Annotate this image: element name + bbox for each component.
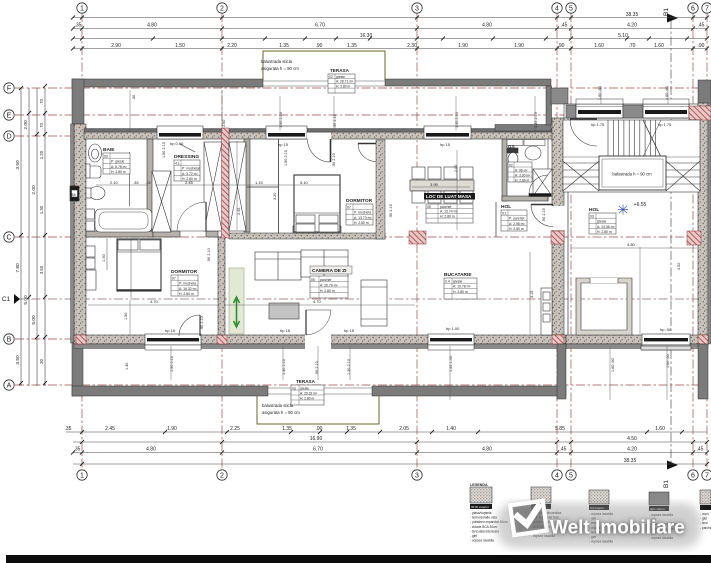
svg-text:3: 3 xyxy=(415,473,419,480)
section line C1 xyxy=(15,298,705,300)
svg-text:H: 2.80 m: H: 2.80 m xyxy=(179,292,194,296)
svg-text:6.70: 6.70 xyxy=(313,447,323,453)
svg-text:Welt Imobiliare: Welt Imobiliare xyxy=(550,518,685,539)
corridor divider line xyxy=(247,186,279,188)
svg-text:4.80: 4.80 xyxy=(482,23,492,29)
svg-text:C1: C1 xyxy=(2,296,11,303)
svg-text:H: 2.80 m: H: 2.80 m xyxy=(354,221,369,225)
bath bidet xyxy=(86,187,105,200)
svg-text:1.90: 1.90 xyxy=(514,43,524,49)
grid axis A xyxy=(15,384,705,386)
tick marks top xyxy=(19,16,709,467)
svg-text:1.60 .60: 1.60 .60 xyxy=(611,358,615,372)
door bedroom1 arc xyxy=(177,202,206,231)
svg-text:.45: .45 xyxy=(697,447,704,453)
svg-text:.45: .45 xyxy=(698,23,705,29)
red column mid-3 xyxy=(687,231,701,245)
room table DORMITOR 2 xyxy=(346,198,373,225)
svg-text:1.60: 1.60 xyxy=(654,43,664,49)
left exterior wall hatched xyxy=(74,124,86,343)
GS door leaf xyxy=(529,175,551,197)
svg-text:1.60 .60: 1.60 .60 xyxy=(666,354,670,368)
bubble 3 top xyxy=(412,3,422,13)
grid axis 6 xyxy=(692,13,694,470)
svg-text:30 W exterior: 30 W exterior xyxy=(471,505,489,509)
room table HOL unit2 xyxy=(589,207,616,234)
shower cabin xyxy=(533,169,552,196)
top dimension line 4 xyxy=(73,48,707,50)
svg-text:A: 2.98 m²: A: 2.98 m² xyxy=(509,222,526,226)
bubble 2 bottom xyxy=(217,470,227,480)
dining chairs row top xyxy=(412,167,473,179)
svg-text:hp 15: hp 15 xyxy=(280,328,291,333)
bedroom2 left wall line xyxy=(278,139,280,233)
svg-text:P: parchet: P: parchet xyxy=(509,217,525,221)
svg-text:.90: .90 xyxy=(558,43,565,49)
top dimension line 3 xyxy=(73,38,707,40)
svg-text:02: 02 xyxy=(329,75,333,79)
svg-text:2.05: 2.05 xyxy=(399,426,409,432)
svg-text:4.50: 4.50 xyxy=(627,436,637,442)
svg-text:gresie: gresie xyxy=(336,75,345,79)
partition bedroom1 top right piece xyxy=(206,231,218,237)
svg-text:3.50: 3.50 xyxy=(39,265,44,274)
svg-text:6: 6 xyxy=(691,473,695,480)
bubble 2 top xyxy=(217,3,227,13)
svg-text:E: E xyxy=(7,113,12,120)
svg-text:1: 1 xyxy=(80,6,84,13)
svg-text:05: 05 xyxy=(311,278,315,282)
red column S right-unit left xyxy=(552,335,564,344)
north wall pier right unit right xyxy=(698,80,711,105)
svg-text:1.40: 1.40 xyxy=(446,426,456,432)
svg-text:1.90: 1.90 xyxy=(167,426,177,432)
svg-text:2.45: 2.45 xyxy=(105,426,115,432)
svg-text:.70: .70 xyxy=(629,43,636,49)
svg-text:H: 2.80 m: H: 2.80 m xyxy=(515,178,530,182)
terrace parapet bottom left xyxy=(72,386,268,396)
bath screen line xyxy=(129,152,131,206)
svg-text:A: 10.78 m²: A: 10.78 m² xyxy=(453,285,471,289)
hol/bucatarie divider line xyxy=(495,202,497,237)
window N1 opening diagonal xyxy=(180,144,195,152)
svg-text:5.85: 5.85 xyxy=(555,426,565,432)
window N2 xyxy=(266,126,307,139)
svg-text:H: 2.80 m: H: 2.80 m xyxy=(509,227,524,231)
bottom dimension line 3 xyxy=(73,452,707,454)
svg-text:1.30 2.10: 1.30 2.10 xyxy=(282,359,286,375)
watermark logo shadow xyxy=(510,501,547,535)
svg-text:6: 6 xyxy=(691,6,695,13)
window S1 xyxy=(145,334,201,350)
svg-text:1.30 2.10: 1.30 2.10 xyxy=(347,359,351,375)
svg-text:parchet: parchet xyxy=(320,278,331,282)
svg-text:16.30: 16.30 xyxy=(360,33,373,39)
partition dormitor2 right xyxy=(376,140,385,239)
room table LOC DE LUAT MASA xyxy=(424,193,475,223)
stairs upper flight risers xyxy=(563,120,700,157)
left dimension line 2 xyxy=(28,88,30,386)
svg-text:C: C xyxy=(6,235,11,242)
svg-text:H: 2.80 m: H: 2.80 m xyxy=(336,84,351,88)
svg-text:1.30: 1.30 xyxy=(125,363,129,370)
svg-text:- tencuiala interioara: - tencuiala interioara xyxy=(470,529,499,533)
svg-text:gresie: gresie xyxy=(597,220,606,224)
left exterior wall upper grey xyxy=(72,79,84,124)
svg-text:BUCATARIE: BUCATARIE xyxy=(444,272,472,278)
section line B1 xyxy=(670,20,672,462)
svg-text:2.20: 2.20 xyxy=(227,43,237,49)
svg-text:.35: .35 xyxy=(75,23,82,29)
north wall unit1 xyxy=(84,132,566,139)
bath tub xyxy=(95,209,152,232)
room table GS xyxy=(508,144,532,182)
door dormitor2 right-wall arc xyxy=(358,144,376,162)
svg-text:.90 2.10: .90 2.10 xyxy=(200,316,204,330)
svg-text:A: 20.79 m²: A: 20.79 m² xyxy=(320,283,338,287)
svg-text:4.1: 4.1 xyxy=(175,162,180,166)
svg-text:A: 13.73 m²: A: 13.73 m² xyxy=(354,216,372,220)
svg-text:.90 2.19: .90 2.19 xyxy=(542,208,546,222)
bed bedroom2 xyxy=(294,175,340,232)
door living-south arc xyxy=(306,310,331,335)
unit separation wall xyxy=(552,118,564,335)
svg-text:1.90: 1.90 xyxy=(458,43,468,49)
svg-text:gresie: gresie xyxy=(300,386,309,390)
dining table xyxy=(410,180,474,191)
red column S mid xyxy=(217,335,227,344)
door right-unit entry arc xyxy=(570,119,597,146)
terrace parapet top left segment xyxy=(72,79,263,87)
left dimension line 1 xyxy=(20,88,22,386)
svg-text:hp 0.90: hp 0.90 xyxy=(170,141,184,146)
svg-text:2.00: 2.00 xyxy=(31,185,37,195)
svg-text:.90 2.10: .90 2.10 xyxy=(315,361,319,375)
bubble 1 bottom xyxy=(77,470,87,480)
svg-text:.90 2.10: .90 2.10 xyxy=(333,114,337,128)
level marker +6.55 xyxy=(618,202,647,215)
svg-text:.30: .30 xyxy=(39,358,44,364)
bubble C xyxy=(4,232,14,242)
room table DRESSING xyxy=(174,154,200,181)
svg-text:1.35: 1.35 xyxy=(347,43,357,49)
door hol-separation arc xyxy=(531,205,553,227)
wardrobe dressing xyxy=(152,171,171,232)
svg-text:7.80: 7.80 xyxy=(15,263,21,273)
grid axis 2 xyxy=(221,13,223,470)
svg-text:A: A xyxy=(7,383,12,390)
svg-text:A: 96 m²: A: 96 m² xyxy=(515,168,528,172)
bubble D xyxy=(4,131,14,141)
svg-text:1.35: 1.35 xyxy=(279,43,289,49)
svg-text:H: 2.80 m: H: 2.80 m xyxy=(111,170,126,174)
svg-text:4.80: 4.80 xyxy=(627,242,636,247)
svg-text:H: 2.80 m: H: 2.80 m xyxy=(320,289,335,293)
svg-text:asigurata h = 90 cm: asigurata h = 90 cm xyxy=(262,410,300,415)
svg-text:3.15: 3.15 xyxy=(530,291,534,298)
north wall pier right unit left xyxy=(551,88,568,104)
svg-text:1.50: 1.50 xyxy=(175,43,185,49)
svg-text:CAMERA DE ZI: CAMERA DE ZI xyxy=(312,268,347,274)
interior dim lines xyxy=(88,86,697,400)
svg-text:D: D xyxy=(6,134,11,141)
wall duct xyxy=(70,186,79,201)
svg-text:.35: .35 xyxy=(74,447,81,453)
terrace parapet top right segment xyxy=(385,79,551,86)
separation wall door gap xyxy=(551,206,565,230)
svg-text:.45: .45 xyxy=(561,23,568,29)
right unit inner wall line xyxy=(567,118,569,335)
svg-text:2.00: 2.00 xyxy=(23,120,29,130)
svg-text:.90: .90 xyxy=(316,426,323,432)
watermark logo house-check xyxy=(510,501,547,535)
south wall unit1 xyxy=(74,335,566,344)
svg-text:38.35: 38.35 xyxy=(626,12,639,18)
legend swatch 5 (cut) xyxy=(700,490,711,530)
svg-text:4.80: 4.80 xyxy=(482,447,492,453)
stairs left flight xyxy=(563,161,599,191)
svg-text:16.90: 16.90 xyxy=(310,436,323,442)
svg-text:03: 03 xyxy=(104,155,108,159)
bath shelf boxes xyxy=(86,209,95,231)
svg-text:1.15: 1.15 xyxy=(255,180,264,185)
grid axis D xyxy=(15,135,705,137)
svg-text:hp 15: hp 15 xyxy=(440,142,451,147)
legend swatch 1 xyxy=(470,487,508,543)
GS sink xyxy=(525,146,541,160)
svg-text:2.25: 2.25 xyxy=(230,426,240,432)
svg-text:H: 2.80 m: H: 2.80 m xyxy=(300,396,315,400)
door dormitor2 north arc xyxy=(308,139,331,162)
room table CAMERA DE ZI xyxy=(310,266,352,298)
svg-text:6.70: 6.70 xyxy=(315,23,325,29)
pier left of window NE1 xyxy=(566,105,576,118)
svg-text:38.35: 38.35 xyxy=(624,458,637,464)
svg-text:HOL: HOL xyxy=(589,207,599,213)
svg-text:P: mocheta: P: mocheta xyxy=(354,211,371,215)
svg-text:DORMITOR: DORMITOR xyxy=(346,198,373,204)
svg-text:3.50: 3.50 xyxy=(15,160,21,170)
room table HOL unit1 xyxy=(501,204,527,231)
right exterior wall xyxy=(698,103,708,344)
TV cabinet xyxy=(361,280,387,326)
rotated door dims xyxy=(124,86,681,375)
sofa xyxy=(255,250,348,280)
svg-text:balustrada sticla: balustrada sticla xyxy=(262,403,294,408)
bedroom1 dim line xyxy=(107,238,131,298)
bubble B xyxy=(4,334,14,344)
bubble 7 bottom xyxy=(702,470,711,480)
room table BUCATARIE xyxy=(444,272,477,299)
red corner block NE xyxy=(689,106,711,120)
bubble 4 top xyxy=(552,3,562,13)
svg-text:asigurata h = 90 cm: asigurata h = 90 cm xyxy=(261,66,299,71)
dining chairs row bottom xyxy=(412,191,473,203)
bottom dimension line 1 xyxy=(66,431,707,433)
svg-text:02: 02 xyxy=(509,163,513,167)
svg-text:2.10: 2.10 xyxy=(110,180,119,185)
svg-text:2.45: 2.45 xyxy=(185,180,194,185)
right unit north wall band xyxy=(564,104,698,118)
svg-text:F: F xyxy=(7,86,11,93)
svg-text:P: mocheta: P: mocheta xyxy=(179,282,196,286)
svg-text:.45: .45 xyxy=(560,447,567,453)
svg-text:.88: .88 xyxy=(70,192,76,197)
door opening N dormitor2 xyxy=(307,133,331,140)
bubble 3 bottom xyxy=(412,470,422,480)
svg-text:.70: .70 xyxy=(39,122,44,128)
svg-text:1.60 .60: 1.60 .60 xyxy=(598,86,602,100)
bubble 1 top xyxy=(77,3,87,13)
svg-text:7: 7 xyxy=(705,6,709,13)
svg-text:1.60 .60: 1.60 .60 xyxy=(665,86,669,100)
window S2 kitchen xyxy=(428,334,474,350)
svg-text:2.90: 2.90 xyxy=(111,43,121,49)
svg-text:A: 29.32 m²: A: 29.32 m² xyxy=(300,391,318,395)
top dimension line 2 xyxy=(73,28,707,30)
wardrobe hall left xyxy=(204,142,222,231)
window NE1 sill xyxy=(576,99,623,104)
bubble F xyxy=(4,83,14,93)
svg-text:.90 2.10: .90 2.10 xyxy=(207,248,211,262)
svg-text:- tenc: - tenc xyxy=(700,521,708,525)
stairwell outline xyxy=(563,120,700,192)
bath toilet xyxy=(86,164,101,178)
wardrobe hall right xyxy=(229,142,246,231)
door bedroom1 terrace xyxy=(179,315,200,336)
partition living/bedroom1 xyxy=(218,237,225,335)
svg-text:.70: .70 xyxy=(39,98,44,104)
svg-text:1.35 2.19: 1.35 2.19 xyxy=(534,112,538,128)
partition dressing right xyxy=(244,139,250,232)
GS toilet xyxy=(507,148,518,166)
svg-text:5.00: 5.00 xyxy=(31,315,37,325)
svg-text:1.35: 1.35 xyxy=(282,426,292,432)
bottom dimension line 2 xyxy=(73,441,707,443)
red column mid-1 xyxy=(409,231,426,244)
bubble A xyxy=(4,380,14,390)
pier grid2 xyxy=(222,128,230,238)
svg-text:2.00: 2.00 xyxy=(454,165,458,172)
svg-text:balustrada h = 90 cm: balustrada h = 90 cm xyxy=(612,172,652,177)
grid axis 1 xyxy=(81,13,83,470)
svg-text:balustrada sticla: balustrada sticla xyxy=(261,59,293,64)
svg-text:parchet: parchet xyxy=(440,205,451,209)
svg-text:TERASA: TERASA xyxy=(296,379,316,384)
glass balustrade top (thin lines) xyxy=(263,81,385,86)
corridor wall xyxy=(229,233,385,239)
porch beam unit1 entry xyxy=(495,125,551,132)
svg-text:3.95: 3.95 xyxy=(430,182,439,187)
svg-text:.30: .30 xyxy=(132,95,136,100)
bedroom1 wall shelves xyxy=(86,246,96,290)
grid axis F xyxy=(15,87,705,89)
svg-text:0.4: 0.4 xyxy=(445,280,450,284)
svg-text:LOC DE LUAT MASA: LOC DE LUAT MASA xyxy=(426,194,472,199)
svg-text:3.20: 3.20 xyxy=(273,193,277,200)
red column SE xyxy=(698,335,708,344)
south wall outer grey layer xyxy=(74,344,566,349)
svg-text:hp 15: hp 15 xyxy=(278,142,289,147)
bubble 5 top xyxy=(566,3,576,13)
svg-text:rig: rig xyxy=(292,386,296,390)
svg-text:1.50: 1.50 xyxy=(102,254,106,261)
svg-text:B1: B1 xyxy=(663,480,670,488)
svg-text:- glet: - glet xyxy=(470,534,477,538)
room table TERASA top xyxy=(328,68,355,93)
svg-text:H: 2.80 m: H: 2.80 m xyxy=(453,290,468,294)
coffee table xyxy=(269,303,299,319)
svg-text:5.10: 5.10 xyxy=(300,180,309,185)
grid axis E xyxy=(15,114,705,116)
svg-text:- vops: - vops xyxy=(700,512,709,516)
svg-text:2.45: 2.45 xyxy=(237,208,241,215)
svg-text:1.50 2.10: 1.50 2.10 xyxy=(162,142,166,158)
red hatch block separation wall xyxy=(552,129,564,142)
window N1 xyxy=(157,126,203,139)
svg-text:4: 4 xyxy=(555,6,559,13)
GS walls xyxy=(502,139,548,201)
door opening S living xyxy=(305,334,331,350)
south wall right unit xyxy=(566,335,708,344)
svg-text:LEGENDA: LEGENDA xyxy=(470,483,488,487)
section marker C1 xyxy=(2,294,20,304)
svg-text:.15: .15 xyxy=(145,180,151,185)
red hatch block right wall xyxy=(698,129,708,142)
svg-text:05: 05 xyxy=(427,205,431,209)
grid axis C xyxy=(15,236,705,238)
svg-text:B: B xyxy=(7,337,12,344)
room table BAIE xyxy=(103,147,130,174)
terrace wall right unit right stub xyxy=(698,344,708,399)
svg-text:DORMITOR: DORMITOR xyxy=(171,269,198,275)
svg-text:4.80: 4.80 xyxy=(146,447,156,453)
svg-text:.35: .35 xyxy=(65,426,72,432)
svg-text:4.20: 4.20 xyxy=(627,23,637,29)
kitchen counter unit1 xyxy=(541,288,552,335)
svg-text:03: 03 xyxy=(590,215,594,219)
section marker B1 bottom xyxy=(663,461,678,488)
svg-text:1.50 2.10: 1.50 2.10 xyxy=(284,150,288,166)
interior horizontal dims xyxy=(70,180,636,304)
south wall right unit outer grey layer xyxy=(566,344,708,349)
partition bath bottom xyxy=(86,231,153,237)
bath sink xyxy=(89,144,102,162)
legend swatch 4 xyxy=(649,492,679,540)
svg-text:4.52: 4.52 xyxy=(677,263,681,270)
window NE1 xyxy=(576,104,623,118)
svg-text:gresie: gresie xyxy=(453,280,462,284)
stairwell balustrade box xyxy=(599,156,666,190)
svg-text:- zidarie BCA 30cm: - zidarie BCA 30cm xyxy=(470,525,498,529)
stairs right flight xyxy=(666,161,700,191)
kitchen counter right unit / lower room window bay xyxy=(641,346,691,350)
svg-text:hp .90: hp .90 xyxy=(660,327,672,332)
legend swatch 3 xyxy=(589,490,613,544)
svg-text:HOL: HOL xyxy=(501,204,511,210)
svg-text:1.30: 1.30 xyxy=(39,205,44,214)
svg-text:- plasa/vopsela: - plasa/vopsela xyxy=(470,511,492,515)
bed bedroom1 xyxy=(117,239,161,291)
terrace balustrade glass top (annotation) xyxy=(261,51,385,80)
window S3 right unit xyxy=(642,334,690,350)
svg-text:H: 2.80 m: H: 2.80 m xyxy=(440,214,455,218)
svg-text:2: 2 xyxy=(220,6,224,13)
svg-text:- glet: - glet xyxy=(700,517,707,521)
svg-text:1: 1 xyxy=(80,473,84,480)
partition bedroom1 top xyxy=(153,231,180,237)
pier between NE windows xyxy=(623,105,643,118)
